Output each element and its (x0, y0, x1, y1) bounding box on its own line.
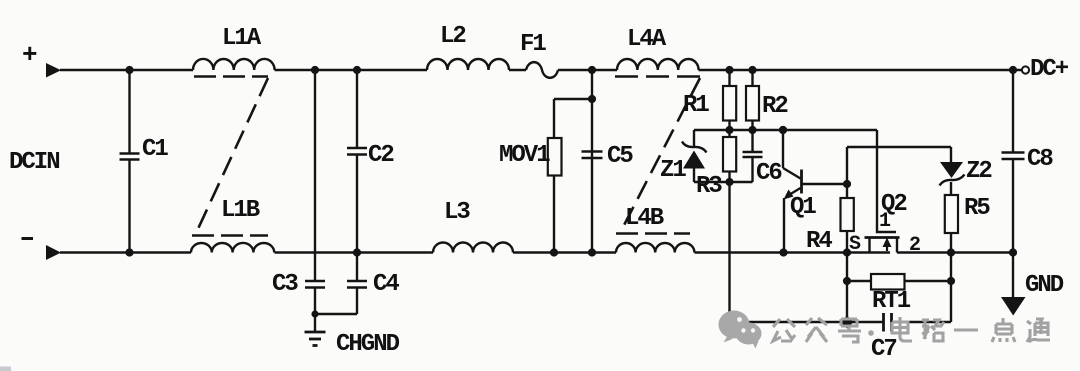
diode Z2 (940, 147, 965, 195)
label CHGND (336, 331, 400, 358)
wire C5 column (588, 66, 596, 257)
svg-text:L1A: L1A (222, 25, 262, 52)
wire top rail (60, 69, 1022, 71)
label Q1 (790, 194, 816, 221)
label L4A (627, 26, 667, 53)
label Z2 (966, 158, 991, 185)
label DCIN (9, 149, 59, 176)
svg-text:2: 2 (909, 234, 920, 257)
thermistor RT1 (847, 274, 951, 290)
label R3 (696, 173, 722, 200)
label L4B (625, 205, 664, 232)
svg-text:Z2: Z2 (966, 158, 991, 185)
node DC+ output (1022, 66, 1029, 73)
ground GND symbol (1001, 253, 1026, 316)
label MOV1 (499, 142, 550, 169)
core line L1 bottom dashes (192, 234, 268, 237)
varistor MOV1 (548, 99, 562, 257)
label R2 (762, 93, 787, 120)
label C8 (1027, 146, 1053, 173)
label L3 (444, 199, 470, 226)
diode Z1 (682, 130, 707, 182)
pin S Q2 (849, 233, 861, 256)
label C3 (272, 271, 298, 298)
label DC+ (1030, 56, 1069, 83)
svg-text:CHGND: CHGND (336, 331, 400, 358)
node DC input negative terminal (22, 239, 62, 261)
svg-text:Q1: Q1 (790, 194, 816, 221)
svg-text:L1B: L1B (221, 197, 260, 224)
svg-text:R3: R3 (696, 173, 722, 200)
svg-text:C4: C4 (373, 271, 399, 298)
label F1 (520, 31, 546, 58)
svg-text:C3: C3 (272, 271, 298, 298)
fuse F1 (526, 62, 558, 78)
capacitor C2 (347, 66, 367, 257)
svg-text:F1: F1 (520, 31, 546, 58)
resistor R2 (746, 66, 759, 130)
watermark wechat icon (719, 311, 762, 349)
label C5 (607, 143, 633, 170)
watermark text (773, 317, 1050, 342)
svg-text:DCIN: DCIN (9, 149, 59, 176)
pin 1 Q2 (879, 210, 891, 233)
svg-text:RT1: RT1 (872, 288, 911, 315)
svg-text:C5: C5 (607, 143, 633, 170)
label R5 (964, 195, 990, 222)
svg-text:L3: L3 (444, 199, 470, 226)
core line L4 top dashes (615, 75, 700, 78)
label RT1 (872, 288, 911, 315)
label Q2 (881, 191, 906, 218)
wire bottom rail (60, 251, 1013, 253)
label C6 (756, 160, 782, 187)
inductor L4B (616, 243, 694, 253)
inductor L3 (433, 243, 513, 253)
svg-text:L4B: L4B (625, 205, 664, 232)
capacitor C8 (1002, 66, 1025, 257)
label C7 (871, 336, 896, 363)
svg-text:DC+: DC+ (1030, 56, 1069, 83)
inductor L1A (193, 59, 275, 70)
wire base node (843, 147, 951, 188)
ground CHGND symbol (305, 314, 326, 346)
label R1 (683, 92, 709, 119)
inductor L4A (617, 59, 699, 70)
core line L4 bottom dashes (616, 232, 690, 235)
wire gate rail (694, 126, 877, 134)
svg-text:R1: R1 (683, 92, 709, 119)
svg-text:L4A: L4A (627, 26, 667, 53)
label R4 (806, 228, 832, 255)
resistor R1 (723, 66, 736, 130)
capacitor C5 (582, 152, 603, 159)
resistor R5 (945, 195, 958, 257)
label C4 (373, 271, 399, 298)
inductor L1B (191, 243, 274, 253)
watermark corner sliver (0, 367, 11, 371)
wire C3-C4 join (311, 310, 357, 317)
wire R3 to C7 rail (728, 182, 730, 322)
label L1B (221, 197, 260, 224)
label C2 (368, 142, 393, 169)
core line L1 diagonal (197, 78, 268, 231)
svg-text:L2: L2 (440, 23, 465, 50)
svg-text:MOV1: MOV1 (499, 142, 550, 169)
label C1 (142, 136, 168, 163)
svg-text:R5: R5 (964, 195, 990, 222)
svg-text:R4: R4 (806, 228, 832, 255)
capacitor C3 (305, 281, 325, 314)
wire R4 column below (843, 253, 851, 323)
inductor L2 (427, 59, 509, 70)
label L2 (440, 23, 465, 50)
pin 2 Q2 (909, 234, 920, 257)
transistor Q2 (865, 130, 900, 253)
svg-text:C6: C6 (756, 160, 782, 187)
svg-text:GND: GND (1025, 272, 1064, 299)
node DC input positive terminal (22, 40, 61, 78)
capacitor C4 (347, 253, 367, 315)
svg-text:+: + (22, 40, 38, 70)
capacitor C1 (120, 66, 140, 257)
label L1A (222, 25, 262, 52)
svg-text:Z1: Z1 (660, 157, 686, 184)
resistor R3 (723, 130, 736, 182)
svg-text:C7: C7 (871, 336, 896, 363)
transistor Q1 (779, 126, 847, 257)
capacitor C6 (743, 130, 763, 182)
label Z1 (660, 157, 686, 184)
svg-text:C2: C2 (368, 142, 393, 169)
wire MOV1 top link (554, 98, 592, 100)
svg-text:C1: C1 (142, 136, 168, 163)
capacitor C7 (730, 313, 952, 332)
wire zener loop bottom (694, 178, 753, 186)
core line L4 diagonal (621, 78, 700, 231)
label GND (1025, 272, 1064, 299)
svg-text:C8: C8 (1027, 146, 1053, 173)
svg-text:R2: R2 (762, 93, 787, 120)
wire R5 column below (947, 253, 955, 323)
wire C3 column (311, 66, 319, 281)
core line L1 top dashes (194, 75, 268, 78)
resistor R4 (841, 184, 854, 257)
